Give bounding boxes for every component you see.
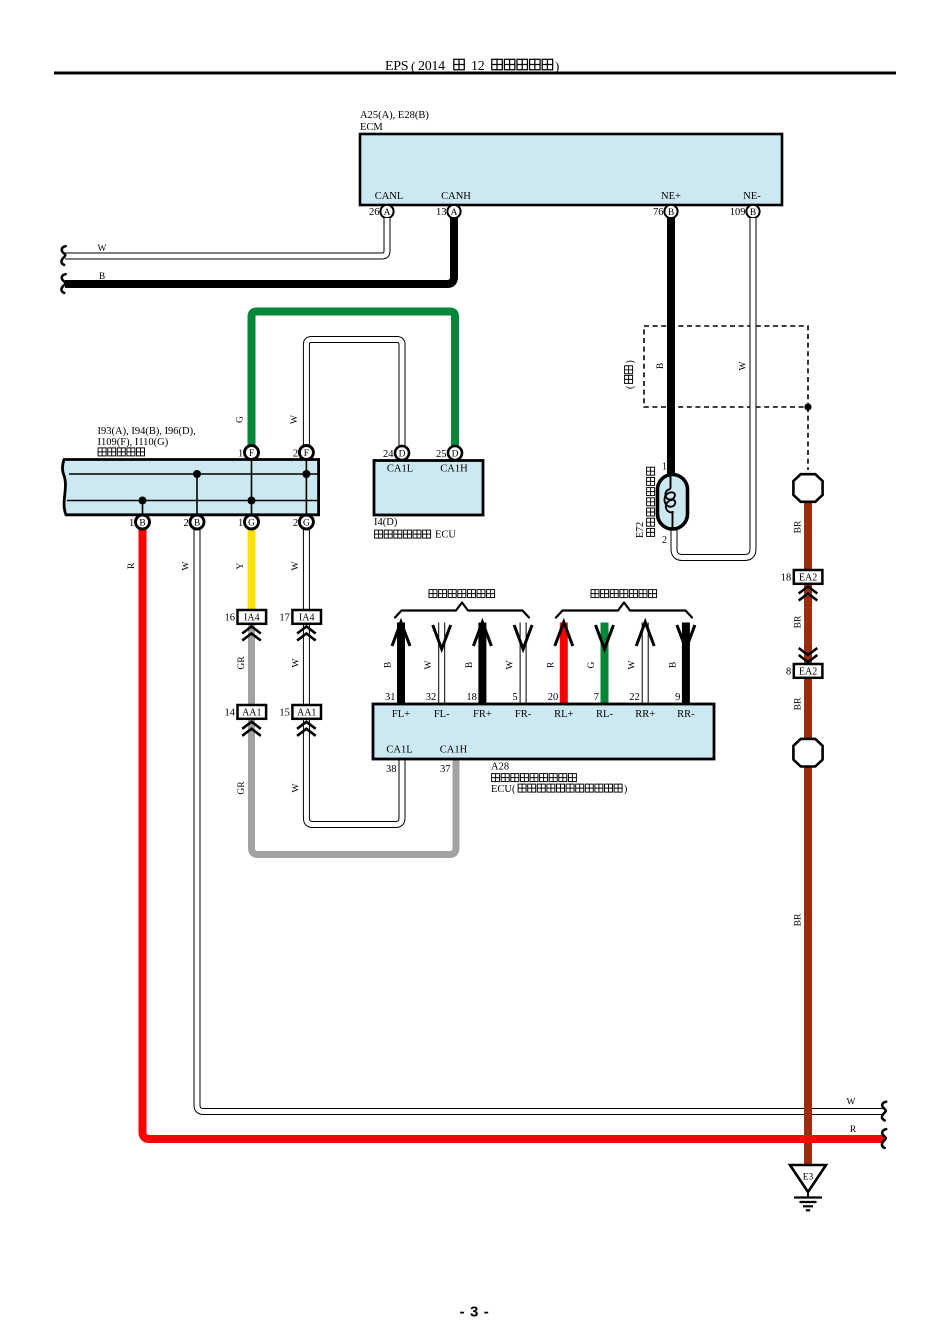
svg-text:14: 14 (225, 708, 236, 719)
svg-text:R: R (850, 1125, 857, 1135)
svg-text:1: 1 (129, 518, 134, 529)
svg-text:B: B (668, 208, 674, 218)
svg-text:F: F (304, 449, 309, 459)
svg-text:W: W (506, 660, 516, 669)
svg-text:A: A (451, 208, 458, 218)
svg-text:37: 37 (440, 764, 451, 775)
svg-text:G: G (303, 518, 310, 528)
svg-text:CA1H: CA1H (440, 745, 468, 756)
svg-text:W: W (424, 660, 434, 669)
svg-text:CANL: CANL (375, 191, 404, 202)
svg-text:2: 2 (183, 518, 188, 529)
svg-text:A25(A), E28(B): A25(A), E28(B) (360, 110, 429, 121)
svg-text:CA1L: CA1L (386, 745, 412, 756)
svg-text:I109(F), I110(G): I109(F), I110(G) (98, 437, 169, 448)
svg-text:109: 109 (730, 207, 746, 218)
svg-text:RR-: RR- (677, 709, 695, 720)
svg-text:NE+: NE+ (661, 191, 681, 202)
svg-text:31: 31 (385, 692, 396, 703)
svg-text:AA1: AA1 (242, 708, 261, 719)
svg-text:BR: BR (794, 913, 804, 926)
svg-text:GR: GR (237, 781, 247, 795)
svg-text:ECM: ECM (360, 122, 383, 133)
svg-text:CA1H: CA1H (440, 464, 468, 475)
svg-text:B: B (465, 662, 475, 668)
svg-text:I93(A), I94(B), I96(D),: I93(A), I94(B), I96(D), (98, 426, 196, 437)
svg-text:IA4: IA4 (299, 613, 315, 624)
svg-text:G: G (248, 518, 255, 528)
svg-text:17: 17 (279, 613, 290, 624)
svg-text:2: 2 (662, 535, 667, 546)
svg-text:1: 1 (238, 518, 243, 529)
svg-text:FR-: FR- (515, 709, 532, 720)
svg-text:E3: E3 (803, 1173, 814, 1183)
svg-text:B: B (139, 518, 145, 528)
svg-text:RR+: RR+ (635, 709, 655, 720)
svg-text:A28: A28 (491, 762, 509, 773)
svg-text:18: 18 (781, 573, 792, 584)
svg-text:8: 8 (786, 667, 791, 678)
svg-text:R: R (546, 661, 556, 668)
svg-text:15: 15 (279, 708, 290, 719)
svg-text:- 3 -: - 3 - (460, 1304, 490, 1321)
svg-text:FL+: FL+ (392, 709, 410, 720)
svg-text:CANH: CANH (441, 191, 471, 202)
svg-text:FL-: FL- (434, 709, 450, 720)
svg-text:BR: BR (794, 520, 804, 533)
svg-text:W: W (290, 415, 300, 424)
svg-text:W: W (628, 660, 638, 669)
svg-text:): ) (625, 360, 636, 363)
svg-text:): ) (555, 59, 559, 74)
svg-text:G: G (236, 416, 246, 423)
svg-text:EA2: EA2 (799, 667, 817, 678)
svg-text:W: W (98, 244, 107, 254)
svg-text:EA2: EA2 (799, 573, 817, 584)
svg-text:D: D (399, 449, 406, 459)
svg-text:20: 20 (548, 692, 559, 703)
svg-text:16: 16 (225, 613, 236, 624)
svg-text:W: W (847, 1098, 856, 1108)
svg-text:NE-: NE- (743, 191, 761, 202)
svg-text:13: 13 (436, 207, 447, 218)
svg-text:W: W (182, 561, 192, 570)
svg-text:38: 38 (386, 764, 397, 775)
svg-text:ECU: ECU (491, 784, 512, 795)
svg-text:9: 9 (675, 692, 680, 703)
svg-text:G: G (587, 661, 597, 668)
svg-text:D: D (452, 449, 459, 459)
svg-text:BR: BR (794, 615, 804, 628)
svg-text:25: 25 (436, 449, 447, 460)
svg-text:RL-: RL- (596, 709, 613, 720)
svg-text:26: 26 (369, 207, 380, 218)
svg-text:ECU: ECU (435, 530, 456, 541)
svg-text:22: 22 (629, 692, 640, 703)
svg-text:R: R (127, 562, 137, 569)
svg-text:F: F (249, 449, 254, 459)
svg-text:BR: BR (794, 697, 804, 710)
svg-text:(: ( (411, 59, 415, 74)
svg-text:CA1L: CA1L (387, 464, 413, 475)
svg-text:B: B (99, 272, 105, 282)
svg-text:E72: E72 (635, 522, 646, 538)
svg-text:A: A (384, 208, 391, 218)
svg-text:GR: GR (237, 656, 247, 670)
svg-text:FR+: FR+ (473, 709, 492, 720)
svg-text:IA4: IA4 (244, 613, 260, 624)
svg-text:B: B (750, 208, 756, 218)
svg-text:): ) (624, 784, 627, 795)
svg-text:B: B (194, 518, 200, 528)
svg-text:1: 1 (238, 449, 243, 460)
svg-text:RL+: RL+ (554, 709, 573, 720)
svg-text:1: 1 (662, 462, 667, 473)
svg-text:B: B (384, 662, 394, 668)
svg-text:2: 2 (293, 449, 298, 460)
svg-text:24: 24 (383, 449, 394, 460)
svg-text:B: B (656, 363, 666, 369)
svg-text:32: 32 (426, 692, 437, 703)
svg-text:Y: Y (236, 562, 246, 569)
svg-text:B: B (668, 662, 678, 668)
svg-text:W: W (292, 658, 302, 667)
svg-text:2: 2 (293, 518, 298, 529)
svg-text:76: 76 (653, 207, 664, 218)
svg-text:18: 18 (466, 692, 477, 703)
svg-text:I4(D): I4(D) (374, 517, 398, 528)
svg-text:W: W (739, 361, 749, 370)
svg-text:7: 7 (594, 692, 599, 703)
svg-text:W: W (291, 561, 301, 570)
svg-text:5: 5 (512, 692, 517, 703)
svg-text:AA1: AA1 (297, 708, 316, 719)
svg-text:W: W (292, 783, 302, 792)
